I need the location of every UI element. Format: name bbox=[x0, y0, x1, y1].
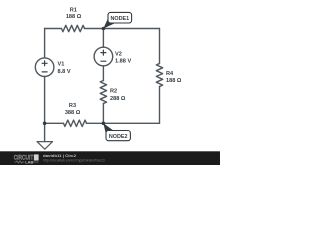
wire right vertical lower bbox=[159, 87, 161, 124]
svg-text:R3: R3 bbox=[69, 103, 76, 109]
svg-text:388 Ω: 388 Ω bbox=[65, 110, 81, 116]
node NODE1 flag pointer bbox=[103, 19, 115, 29]
footer bar bbox=[0, 151, 220, 165]
svg-text:288 Ω: 288 Ω bbox=[110, 96, 126, 102]
wire middle between V2 and R2 bbox=[102, 66, 104, 81]
svg-text:NODE2: NODE2 bbox=[109, 134, 128, 140]
svg-text:1.88 V: 1.88 V bbox=[115, 58, 131, 64]
resistor R3 bbox=[64, 120, 87, 126]
wire bottom-right horizontal segment bbox=[87, 122, 160, 124]
voltage source V1 bbox=[35, 58, 54, 77]
node NODE2 flag pointer bbox=[103, 123, 113, 134]
wire top-right horizontal segment bbox=[85, 28, 160, 30]
V1 plus sign bbox=[42, 61, 47, 66]
voltage source V2 bbox=[94, 47, 113, 66]
V1 minus sign bbox=[42, 71, 47, 73]
resistor R1 bbox=[62, 25, 85, 31]
node junction bottom-middle bbox=[102, 122, 106, 126]
svg-text:V2: V2 bbox=[115, 51, 122, 57]
footer logo mark box bbox=[34, 154, 39, 160]
wire middle vertical upper bbox=[102, 29, 104, 48]
svg-text:NODE1: NODE1 bbox=[111, 16, 130, 22]
wire right vertical upper bbox=[159, 29, 161, 64]
resistor R4 bbox=[156, 64, 162, 87]
node NODE2 flag box bbox=[106, 131, 130, 141]
svg-text:LAB: LAB bbox=[25, 160, 33, 165]
wire ground stub bbox=[44, 123, 46, 141]
svg-text:http://circuitlab.com/c/7qqsrt: http://circuitlab.com/c/7qqsrtzkxbmf/cir… bbox=[43, 158, 105, 162]
wire bottom-left horizontal segment bbox=[45, 122, 64, 124]
svg-text:R1: R1 bbox=[70, 8, 77, 14]
svg-text:V1: V1 bbox=[58, 62, 65, 68]
node NODE1 flag box bbox=[108, 12, 132, 23]
ground bbox=[37, 142, 53, 150]
svg-text:R4: R4 bbox=[166, 71, 174, 77]
node junction bottom-left bbox=[43, 122, 47, 126]
svg-text:R2: R2 bbox=[110, 89, 117, 95]
node junction top bbox=[102, 27, 106, 31]
wire left vertical lower bbox=[44, 77, 46, 124]
svg-text:188 Ω: 188 Ω bbox=[66, 14, 82, 20]
wire middle lower bbox=[102, 104, 104, 124]
svg-text:188 Ω: 188 Ω bbox=[166, 78, 182, 84]
footer logo zigzag bbox=[15, 161, 25, 163]
V2 minus sign bbox=[101, 60, 106, 62]
resistor R2 bbox=[100, 81, 106, 104]
wire left vertical upper bbox=[44, 29, 46, 58]
svg-text:8.8 V: 8.8 V bbox=[58, 69, 71, 75]
footer line after LAB bbox=[33, 161, 39, 163]
wire top-left horizontal segment bbox=[45, 28, 62, 30]
V2 plus sign bbox=[101, 50, 106, 55]
